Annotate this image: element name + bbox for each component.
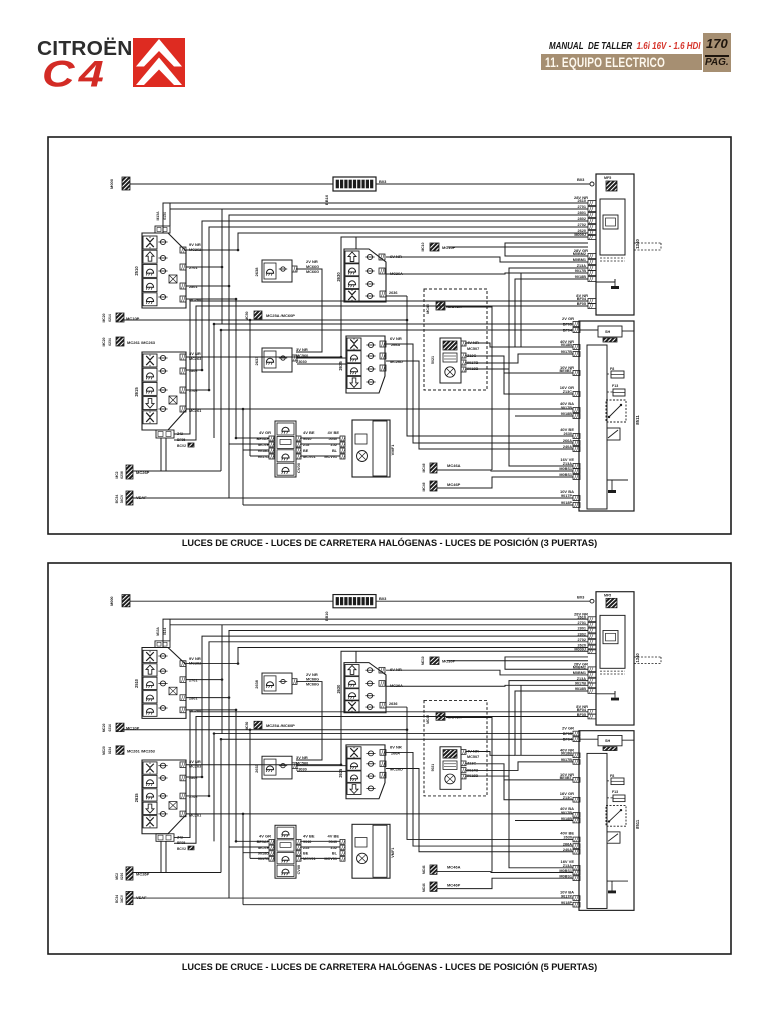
icons in 2615 (143, 354, 157, 367)
wire 4V NR from 5021 (466, 343, 515, 347)
switch unit 2635 body (346, 336, 385, 393)
dashed wires right of PSF1 (634, 242, 661, 244)
wire 2V GR riser a (202, 323, 204, 325)
5-door diagram frame (48, 563, 731, 954)
svg-text:6V NR: 6V NR (390, 336, 402, 341)
wire 2701 bus (186, 209, 222, 267)
wire MC10P bus (124, 319, 407, 321)
switch unit 2510 body (142, 233, 186, 308)
svg-text:BE: BE (303, 449, 309, 453)
svg-text:0236: 0236 (120, 471, 124, 479)
wire 2610 bus (163, 203, 588, 233)
svg-text:MC25A /MC60P: MC25A /MC60P (266, 313, 295, 318)
connector 2633 (262, 348, 292, 372)
pins of 2510 (160, 239, 165, 244)
svg-text:MC261: MC261 (189, 409, 201, 413)
wire Z13A riser (509, 268, 588, 466)
svg-text:MC10: MC10 (421, 242, 425, 251)
svg-text:0214: 0214 (108, 314, 112, 322)
connector CV00 body (275, 421, 296, 477)
svg-text:34CV: 34CV (120, 494, 124, 503)
svg-text:2636: 2636 (389, 291, 397, 295)
svg-text:M13A: M13A (156, 211, 160, 221)
svg-text:MC507: MC507 (467, 347, 479, 351)
contact symbol in 2615 (169, 396, 177, 404)
wire 2638 to 2633 (296, 269, 322, 352)
dashed box MC45 (424, 289, 487, 390)
wire CV00 feed4 (250, 455, 269, 457)
relay SH in BSM (598, 326, 622, 337)
svg-text:4V BE: 4V BE (327, 430, 339, 435)
wire MC46A riser (446, 307, 492, 470)
wire loop M0BM2 (505, 243, 588, 256)
svg-text:F8: F8 (610, 367, 614, 371)
wire 9018B riser (515, 279, 588, 347)
pins of 2630 (367, 254, 372, 259)
svg-text:MC66G: MC66G (306, 265, 319, 269)
5-door diagram (reuse of 3-door layout) (102, 592, 661, 911)
wire trunk riser 229 low (228, 330, 230, 444)
svg-text:MC46: MC46 (422, 482, 426, 491)
svg-text:2510: 2510 (134, 266, 139, 276)
svg-text:0234: 0234 (108, 338, 112, 346)
svg-text:Z3030: Z3030 (296, 360, 307, 364)
unit VMF1 (352, 420, 390, 477)
svg-text:SH: SH (605, 330, 611, 334)
svg-text:MC46A: MC46A (447, 463, 461, 468)
svg-text:9017B: 9017B (561, 406, 572, 410)
wire 2802 bus (186, 221, 588, 370)
svg-text:MC2: MC2 (115, 471, 119, 478)
icons in 2630 (345, 251, 359, 263)
ground on PSF1 (614, 279, 616, 286)
svg-text:2615: 2615 (134, 387, 139, 397)
svg-text:VMF1: VMF1 (390, 444, 395, 455)
svg-text:MF5: MF5 (604, 176, 611, 180)
unit BSM 8511 outer box (579, 321, 634, 511)
wire BB10 to BSI pin B03 (376, 183, 590, 185)
contact symbol in 2510 (169, 275, 177, 283)
svg-text:F13: F13 (612, 384, 618, 388)
svg-text:5021: 5021 (431, 356, 435, 364)
svg-text:MC46: MC46 (422, 463, 426, 472)
svg-text:MC50: MC50 (245, 311, 249, 320)
wire trunk CV00 row1 (186, 299, 236, 438)
svg-text:Z52: Z52 (330, 443, 337, 447)
switch contact in BSM (607, 428, 620, 440)
icons in 2635 (347, 338, 361, 350)
svg-text:2630: 2630 (336, 272, 341, 282)
ground in BSM (611, 483, 613, 490)
svg-text:2635: 2635 (338, 361, 343, 371)
wire Z13C from 5021 (466, 356, 573, 394)
switch unit 2615 body (142, 352, 186, 430)
wire 40V BA 9018B (515, 415, 573, 417)
pins of 2635 (368, 342, 373, 347)
wire 9017B riser (520, 273, 522, 347)
switch unit 2630 body (344, 249, 386, 302)
wires small box risers (160, 438, 162, 471)
wire MC26P (133, 470, 221, 472)
wire 6V NR from 2630 (386, 257, 588, 262)
connector BB10 / B03 (333, 177, 376, 191)
wire CV00 feed1 (236, 437, 269, 439)
3-door diagram frame (48, 137, 731, 534)
wires 2633 to 2635 (297, 357, 346, 359)
wire MC26A from 2630 (386, 273, 588, 274)
svg-text:B03: B03 (379, 179, 387, 184)
wire 2801 bus (186, 215, 588, 286)
svg-text:2638: 2638 (254, 267, 259, 277)
svg-text:MC66G: MC66G (306, 270, 319, 274)
svg-text:3V NR: 3V NR (189, 351, 201, 356)
svg-text:BCV2: BCV2 (177, 444, 186, 448)
svg-text:0134: 0134 (163, 212, 167, 220)
wire 40V BE 240A (386, 361, 573, 449)
pins of 2615 (160, 355, 165, 360)
connector below 2615 (156, 430, 174, 438)
wire trunk riser 222 ext (221, 267, 223, 324)
svg-text:MC46P: MC46P (447, 482, 461, 487)
svg-text:MC20: MC20 (102, 313, 106, 322)
wire BF05 2V (214, 324, 573, 438)
wire 2630 feed (355, 237, 357, 249)
connector above 2510 (155, 226, 170, 233)
svg-text:M000: M000 (109, 178, 114, 189)
svg-text:CV00: CV00 (296, 462, 301, 473)
unit PSF1 1340 outer box (596, 174, 634, 315)
svg-text:MC20: MC20 (102, 337, 106, 346)
svg-text:BL: BL (332, 449, 338, 453)
wire 9018B from 5021 (466, 368, 509, 370)
unit PSF1 inner module (600, 199, 625, 255)
svg-text:5040: 5040 (329, 437, 337, 441)
wire BF05 8V (174, 306, 588, 440)
wire 2636 to MC46A (386, 295, 407, 297)
svg-text:8511: 8511 (635, 415, 640, 425)
wire bottom 9018P (243, 504, 573, 506)
icons in 2510 (143, 236, 157, 249)
wire CV00 feed2 (229, 443, 269, 445)
wire MC10P mid to PSF1 (447, 246, 588, 248)
svg-text:2V GR: 2V GR (562, 316, 574, 321)
relay in BSM (606, 400, 626, 422)
wire 2620 bus (186, 233, 588, 250)
svg-text:BC34: BC34 (115, 495, 119, 504)
wire 40V BE 2630 (407, 296, 573, 436)
wire BF04 2V (221, 330, 573, 471)
wire trunk riser 229 bottom (228, 444, 230, 498)
wire BE0BT (504, 372, 573, 374)
splice MC46A inside MC45 (436, 302, 445, 310)
svg-text:B03: B03 (577, 177, 585, 182)
svg-text:MC261 /MC263: MC261 /MC263 (127, 340, 156, 345)
svg-text:4V BE: 4V BE (303, 430, 315, 435)
wire trunk riser 229 ext (228, 286, 230, 330)
wire M000 to BB10 (130, 183, 333, 185)
wire trunk riser 243 (242, 409, 244, 505)
svg-text:MCV01: MCV01 (324, 455, 337, 459)
svg-text:2V NR: 2V NR (306, 259, 318, 264)
wire 40V BE 266A (386, 344, 573, 443)
wire trunk riser 250 (249, 320, 251, 456)
wires CV00 to VMF1 connector (301, 437, 340, 439)
wire MC261 to 40V BA (186, 408, 573, 410)
wire VEAF to BSM 9017P (133, 497, 573, 499)
wire 2702 bus (186, 227, 588, 390)
wire 9017B from 5021 (466, 354, 573, 363)
svg-text:MC263: MC263 (189, 357, 201, 361)
svg-text:4V GR: 4V GR (259, 430, 271, 435)
unit BSM inner connector strip (587, 345, 607, 509)
connector 2638 (262, 260, 292, 282)
junction dots (406, 319, 409, 322)
svg-text:3V NR: 3V NR (296, 347, 308, 352)
svg-text:1340: 1340 (635, 239, 640, 249)
wire M009J bus (186, 237, 588, 357)
wire CV00 feed3 (243, 449, 269, 451)
svg-text:9V NR: 9V NR (189, 242, 201, 247)
wire BF04 8V (174, 301, 588, 434)
